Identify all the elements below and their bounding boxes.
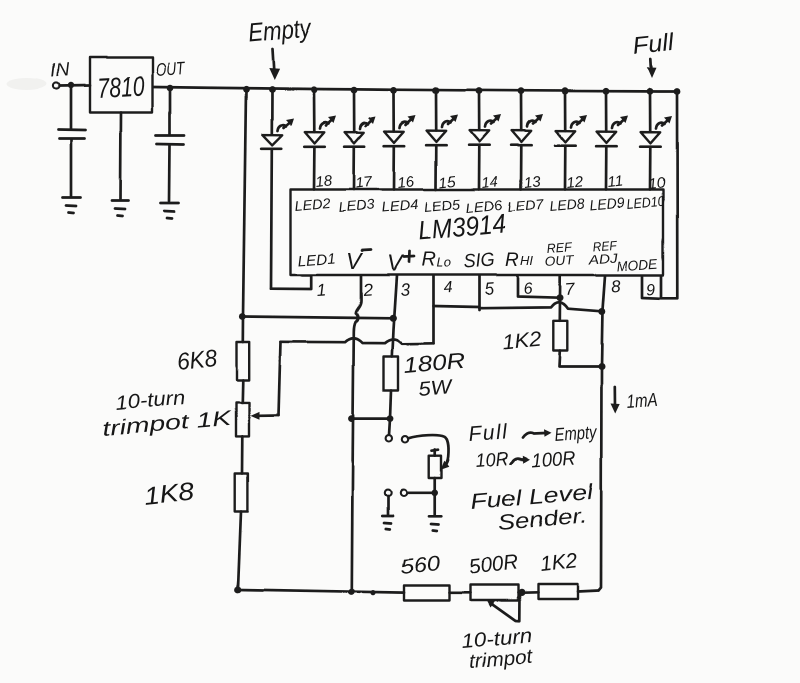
svg-text:10R: 10R — [475, 449, 510, 472]
svg-text:1K2: 1K2 — [501, 328, 542, 354]
node IN input terminal — [53, 83, 59, 89]
ground sender terminal 3 — [382, 516, 393, 530]
LED D3 anode lead — [353, 90, 356, 132]
wire pin 8 REF ADJ down to bottom rail — [599, 276, 606, 591]
svg-text:LED2: LED2 — [294, 195, 331, 214]
resistor R3 180R 5W — [384, 357, 399, 391]
wire pin 6 RHI bracket to pin 7 — [518, 276, 560, 298]
svg-text:1K2: 1K2 — [539, 549, 579, 576]
wire pin 5 SIG stub — [478, 276, 481, 311]
svg-text:V: V — [346, 248, 364, 274]
wire bottom rail left section — [238, 590, 404, 593]
wire W2 wiper to pin4 with hops over pin2 and pin3 lines — [281, 338, 434, 344]
junction W1 right pin3 — [389, 315, 396, 322]
svg-text:LED1: LED1 — [297, 250, 336, 270]
svg-text:100R: 100R — [531, 448, 577, 472]
junction 500R wiper tie — [518, 589, 525, 596]
wire 1K8 down to bottom left corner — [238, 512, 241, 589]
svg-text:OUT: OUT — [155, 58, 187, 80]
junction pin6/pin7 — [557, 294, 564, 301]
wire V+ rail drop to resistor chain — [243, 89, 246, 316]
LED D6 emission arrow — [485, 121, 494, 127]
LED D2 emission arrow — [320, 122, 329, 128]
arrow 1mA — [613, 387, 616, 407]
svg-text:LED9: LED9 — [589, 194, 625, 213]
LED D7 emission arrow — [527, 121, 536, 127]
wire right rail down to pin 9 — [676, 92, 679, 299]
fuel sender pot body — [429, 456, 441, 478]
wire pin 7 REF OUT stub — [558, 276, 561, 321]
Empty arrow — [273, 49, 275, 74]
Full arrow — [649, 59, 652, 73]
junction on pin2 line — [348, 415, 355, 422]
LED D7 cathode lead — [520, 145, 523, 189]
svg-text:MODE: MODE — [616, 255, 659, 274]
wire wiper feed up to W2 — [279, 342, 281, 415]
LED D2 — [305, 132, 325, 143]
junction input cap — [68, 82, 74, 88]
wire pin 3 V+ down into 180R — [392, 276, 397, 357]
junction output cap — [167, 85, 174, 92]
svg-text:18: 18 — [315, 172, 334, 191]
LED D5 emission arrow — [442, 121, 451, 127]
LED D2 anode lead — [313, 90, 316, 132]
node sender terminal 3 — [385, 490, 391, 496]
svg-text:V: V — [387, 250, 405, 276]
svg-text:Lo: Lo — [436, 255, 450, 270]
svg-text:11: 11 — [607, 172, 624, 191]
junction W1 left — [239, 313, 246, 320]
LED D7 — [512, 131, 532, 142]
svg-text:Full: Full — [632, 29, 676, 60]
wire to sender terminal 1 — [389, 419, 390, 435]
LED D5 anode lead — [435, 91, 438, 131]
wire pin5 node across to pin8 line with hop over pin7 — [480, 302, 602, 311]
LED D1 — [262, 135, 282, 145]
trimpot RV1 wiper arrow — [259, 414, 279, 417]
LED D5 — [427, 131, 447, 142]
svg-text:6: 6 — [523, 280, 533, 298]
capacitor C2 lower lead — [168, 145, 171, 201]
resistor R6 1K2 — [538, 584, 578, 599]
LED D3 emission arrow — [360, 123, 369, 129]
paper smudge — [7, 78, 47, 90]
junction on pin8 line — [598, 308, 605, 315]
LED D1 anode lead — [270, 90, 273, 135]
resistor R2 1K8 — [235, 474, 248, 512]
junction bottom left — [235, 586, 242, 593]
trimpot RV2 wiper arrow loop — [491, 595, 520, 622]
ground sender pot — [429, 516, 441, 531]
svg-text:ADJ: ADJ — [587, 250, 619, 267]
svg-text:5: 5 — [484, 279, 495, 299]
wire trimpot to 1K8 — [241, 436, 244, 473]
LED D6 anode lead — [478, 91, 481, 131]
ground C2 — [161, 203, 179, 219]
svg-text:R: R — [505, 250, 519, 271]
LED D5 cathode lead — [435, 145, 438, 189]
resistor R4 1K2 (REF OUT) — [553, 321, 567, 351]
wire IN terminal to regulator — [60, 84, 90, 87]
wire sender terminal 3 to ground — [387, 496, 390, 514]
LED D8 cathode lead — [564, 146, 567, 190]
LED D10 cathode lead — [649, 147, 652, 190]
junction pin2 line at bottom rail — [348, 589, 355, 596]
capacitor C2 upper lead — [169, 88, 172, 135]
LED D1 emission arrow — [278, 125, 287, 131]
svg-text:1K8: 1K8 — [143, 478, 196, 511]
svg-text:1: 1 — [316, 280, 327, 300]
svg-text:7810: 7810 — [97, 71, 146, 104]
svg-text:LED6: LED6 — [465, 197, 503, 216]
svg-text:LED10: LED10 — [626, 193, 665, 212]
wire sender terminal 4 to pot bottom — [407, 491, 435, 494]
LED D3 — [345, 132, 365, 143]
svg-text:HI: HI — [520, 253, 533, 268]
wire 560 to 500R — [450, 591, 471, 594]
wire pin 4 RLo down to W2 — [432, 276, 435, 344]
svg-text:SIG: SIG — [463, 250, 495, 273]
wire 6K8 top lead — [241, 317, 244, 343]
op-amp U2 LM3914 IC box — [291, 190, 664, 276]
svg-text:R: R — [421, 249, 435, 271]
svg-text:4: 4 — [443, 279, 453, 297]
ground C1 — [63, 198, 81, 214]
LED D1 cathode lead down left side of IC — [270, 148, 273, 288]
wire sender terminal 2 to wiper — [408, 435, 448, 466]
svg-text:3: 3 — [399, 280, 410, 300]
node sender terminal 2 — [402, 436, 408, 442]
svg-text:7: 7 — [564, 279, 575, 299]
svg-text:LED5: LED5 — [423, 196, 460, 215]
svg-text:Empty: Empty — [247, 12, 314, 48]
junction 1K2 to pin8 line — [598, 363, 605, 370]
capacitor C2 — [156, 136, 184, 145]
regulator U1 7810 box — [90, 58, 153, 113]
regulator ground lead — [119, 113, 122, 200]
junction blob on bottom rail — [370, 590, 375, 595]
svg-text:8: 8 — [610, 276, 621, 296]
capacitor C1 lower lead — [70, 139, 73, 196]
svg-text:OUT: OUT — [544, 252, 575, 269]
wire bracket pin4 to pin5 — [434, 307, 480, 308]
fuel sender pot top lead — [432, 450, 439, 456]
svg-text:2: 2 — [361, 280, 373, 300]
capacitor C1 input lead — [70, 86, 73, 130]
arrow Full to Empty — [523, 433, 545, 438]
LED D4 emission arrow — [400, 122, 409, 128]
svg-text:6K8: 6K8 — [176, 345, 219, 376]
resistor R5 560 — [404, 586, 450, 601]
junction pot bottom — [431, 490, 438, 497]
LED D10 emission arrow — [656, 123, 665, 129]
wire 1K2 to pin8 line corner — [578, 591, 599, 592]
svg-text:9: 9 — [646, 281, 656, 299]
svg-text:LED3: LED3 — [338, 196, 375, 215]
LED D6 cathode lead — [478, 145, 481, 189]
capacitor C1 — [59, 130, 86, 139]
arrow 10R to 100R — [511, 459, 524, 464]
wire 6K8 to trimpot — [241, 380, 244, 402]
svg-text:1mA: 1mA — [626, 390, 658, 413]
LED D4 cathode lead — [393, 146, 396, 190]
svg-text:Empty: Empty — [554, 421, 599, 445]
LED D10 anode lead — [649, 91, 652, 132]
wire W1 pin3 to resistor chain top — [242, 317, 392, 319]
LED D4 — [385, 131, 405, 142]
fuel sender pot bottom lead — [433, 478, 436, 515]
ground regulator — [112, 201, 129, 217]
junction rail dots — [243, 86, 250, 93]
node sender terminal 1 — [386, 435, 392, 441]
LED D9 — [597, 132, 617, 143]
LED D3 cathode lead — [353, 147, 356, 190]
LED D4 anode lead — [393, 90, 396, 131]
LED D10 — [641, 132, 661, 143]
svg-text:Full: Full — [468, 420, 509, 446]
wire LED1 to pin 1 — [271, 276, 311, 290]
wire 180R bottom lead — [390, 391, 391, 419]
LED D2 cathode lead — [313, 146, 316, 189]
wire pin2 line to sender terminal — [352, 417, 391, 420]
wire pin 9 MODE box — [642, 276, 677, 299]
svg-text:LED8: LED8 — [549, 195, 585, 214]
svg-text:LED7: LED7 — [507, 196, 545, 215]
svg-text:5W: 5W — [418, 376, 455, 401]
LED D8 emission arrow — [571, 122, 580, 128]
resistor R1 6K8 — [237, 342, 250, 380]
LED D9 emission arrow — [612, 122, 621, 128]
LED D9 anode lead — [605, 91, 608, 131]
wire pin 2 V- down to bottom rail — [352, 276, 361, 592]
node sender terminal 4 — [400, 490, 406, 496]
trimpot RV1 1K body — [236, 402, 249, 436]
LED D8 — [556, 131, 576, 142]
wire power rail from regulator OUT to right corner — [153, 87, 677, 92]
trimpot RV2 500R — [471, 585, 519, 601]
junction 180R bottom — [387, 415, 394, 422]
LED D7 anode lead — [520, 91, 523, 130]
svg-text:LED4: LED4 — [381, 196, 419, 215]
wire 500R to 1K2 — [518, 591, 538, 594]
LED D6 — [470, 131, 490, 142]
LED D9 cathode lead — [605, 146, 608, 189]
svg-text:560: 560 — [399, 552, 442, 579]
LED D8 anode lead — [564, 91, 567, 131]
wire 1K2 bottom to pin8 line — [559, 351, 602, 367]
svg-text:IN: IN — [50, 60, 71, 82]
